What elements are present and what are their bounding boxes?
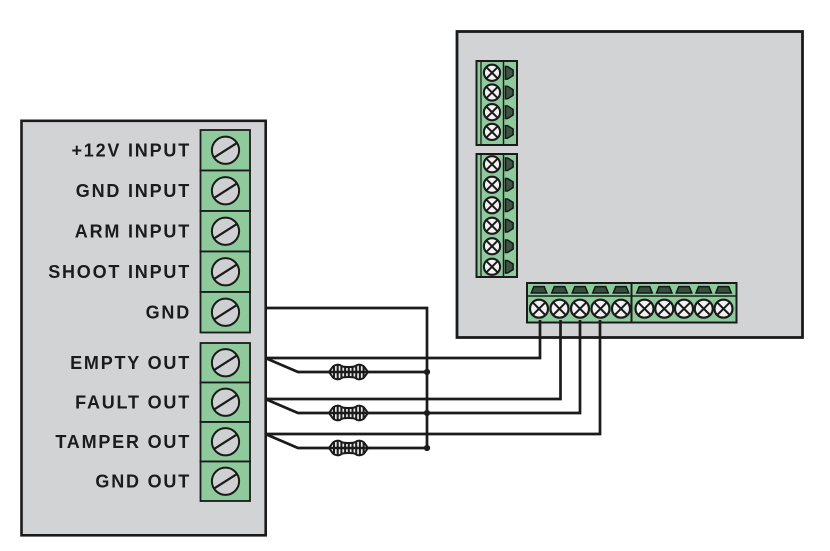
svg-text:GND: GND [146, 303, 191, 323]
J1 screw 1 [484, 65, 500, 81]
J2 screw 3 [484, 197, 500, 213]
wire TAMPER OUT direct to J3 screw 4 [266, 320, 601, 434]
panel terminal strip J3 (5-pos horizontal) [527, 283, 632, 323]
svg-text:FAULT OUT: FAULT OUT [75, 393, 191, 413]
svg-text:+12V INPUT: +12V INPUT [71, 141, 191, 161]
svg-text:GND OUT: GND OUT [95, 472, 191, 492]
J2 wire slot 2 [506, 178, 514, 191]
J4 screw 2 [655, 300, 673, 318]
J3 cable clamp 1 [531, 287, 547, 293]
wire GND from TB1-5 to ground bus [266, 308, 428, 448]
terminal TB2-1 screw (EMPTY OUT) [212, 349, 239, 376]
J3 screw 5 [612, 300, 630, 318]
J4 screw 1 [636, 300, 654, 318]
terminal TB2-2 screw (FAULT OUT) [212, 389, 239, 416]
panel connector J2 (6-pos vertical) [477, 154, 518, 277]
J2 wire slot 6 [506, 260, 514, 273]
J3 screw 1 [530, 300, 548, 318]
svg-text:TAMPER OUT: TAMPER OUT [55, 432, 191, 452]
J3 cable clamp 3 [572, 287, 588, 293]
terminal TB2-4 screw (GND OUT) [212, 468, 239, 495]
J2 screw 6 [484, 259, 500, 275]
input terminal block TB1 (5-pos) [201, 130, 251, 333]
svg-text:ARM INPUT: ARM INPUT [75, 222, 191, 242]
J3 cable clamp 4 [593, 287, 609, 293]
panel connector J1 (4-pos vertical) [477, 61, 518, 145]
output terminal block TB2 (4-pos) [201, 343, 251, 501]
junction dot ground/EMPTY EOL [424, 369, 430, 375]
terminal TB1-4 screw (SHOOT INPUT) [212, 258, 239, 285]
resistor R1 (EMPTY EOL) [329, 364, 368, 380]
J4 cable clamp 4 [696, 287, 712, 293]
svg-text:GND INPUT: GND INPUT [76, 181, 191, 201]
wire EMPTY OUT EOL branch [267, 359, 428, 373]
terminal TB1-1 screw (+12V INPUT) [212, 137, 239, 164]
J4 cable clamp 1 [637, 287, 653, 293]
control panel board (right box) [457, 32, 803, 338]
svg-text:SHOOT INPUT: SHOOT INPUT [48, 262, 191, 282]
resistor R3 (TAMPER EOL) [329, 440, 368, 456]
J3 screw 4 [592, 300, 610, 318]
junction dot ground/TAMPER EOL [424, 445, 430, 451]
panel terminal strip J4 (5-pos horizontal) [632, 283, 737, 323]
module enclosure (left box) [22, 121, 266, 536]
J4 cable clamp 5 [716, 287, 732, 293]
J2 screw 1 [484, 156, 500, 172]
J1 wire slot 4 [506, 126, 514, 139]
J4 screw 3 [675, 300, 693, 318]
junction dot ground/FAULT EOL [424, 410, 430, 416]
wire ground bus to J3 screw 3 [427, 320, 580, 413]
J1 screw 2 [484, 84, 500, 100]
J1 wire slot 3 [506, 106, 514, 119]
J3 cable clamp 2 [552, 287, 568, 293]
svg-text:EMPTY OUT: EMPTY OUT [70, 353, 191, 373]
J2 wire slot 5 [506, 240, 514, 253]
J2 wire slot 1 [506, 158, 514, 171]
terminal TB1-5 screw (GND) [212, 299, 239, 326]
J1 wire slot 2 [506, 86, 514, 99]
J2 screw 4 [484, 218, 500, 234]
J1 screw 4 [484, 124, 500, 140]
J4 cable clamp 3 [676, 287, 692, 293]
J1 wire slot 1 [506, 67, 514, 80]
J1 screw 3 [484, 104, 500, 120]
J3 screw 3 [571, 300, 589, 318]
J2 screw 5 [484, 238, 500, 254]
J2 wire slot 3 [506, 199, 514, 212]
wire TAMPER OUT EOL branch [267, 435, 428, 449]
resistor R2 (FAULT EOL) [329, 405, 368, 421]
terminal TB2-3 screw (TAMPER OUT) [212, 428, 239, 455]
J2 wire slot 4 [506, 219, 514, 232]
wire EMPTY OUT direct to J3 screw 1 [266, 320, 540, 358]
terminal TB1-3 screw (ARM INPUT) [212, 218, 239, 245]
J4 cable clamp 2 [656, 287, 672, 293]
J4 screw 5 [715, 300, 733, 318]
J4 screw 4 [695, 300, 713, 318]
terminal TB1-2 screw (GND INPUT) [212, 177, 239, 204]
J3 cable clamp 5 [613, 287, 629, 293]
J3 screw 2 [551, 300, 569, 318]
J2 screw 2 [484, 177, 500, 193]
wire FAULT OUT direct to J3 screw 2 [266, 320, 561, 399]
wire FAULT OUT EOL branch [267, 400, 428, 414]
